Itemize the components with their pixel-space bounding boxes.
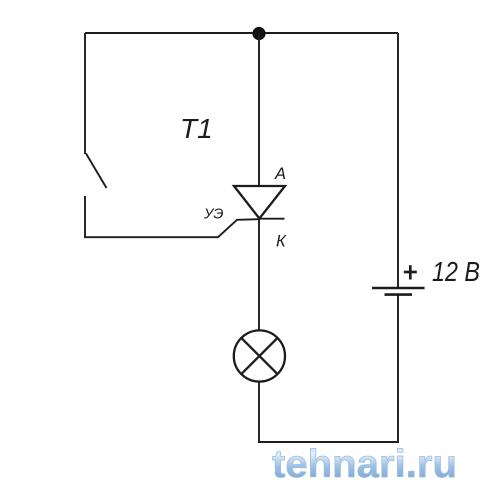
wire: right vertical from top bus to battery + [397,33,399,287]
wire: gate lead horizontal run [84,219,259,237]
label + (battery polarity) [404,265,417,279]
wire: top horizontal bus from switch to battery [85,32,398,34]
lamp HL: cross diagonal 2 [241,338,277,374]
wire: right vertical from battery - to bottom bus [397,295,399,443]
wire: anode lead from junction down to thyristor [258,33,260,186]
svg-text:12 В: 12 В [432,256,480,287]
wire: left vertical down to switch [84,33,86,154]
battery GB1: short negative plate [385,293,413,296]
lamp HL: circle [234,330,285,381]
wire: bottom horizontal bus [258,441,398,443]
thyristor T1: cathode bar (right of apex) [259,218,284,220]
thyristor T1: triangle [234,186,285,219]
svg-text:A: A [274,165,286,183]
lamp HL: cross diagonal 1 [241,338,277,374]
node: junction dot on top bus [252,27,265,40]
svg-text:К: К [276,233,287,251]
svg-text:T1: T1 [180,113,213,144]
wire: cathode lead down to lamp [258,219,260,332]
svg-text:tehnari.ru: tehnari.ru [272,443,457,486]
switch S (open blade) [86,154,107,189]
wire: left vertical below switch [84,196,86,237]
svg-text:УЭ: УЭ [203,207,224,223]
battery GB1: long positive plate [372,287,425,290]
wire: lamp to bottom bus [258,382,260,443]
